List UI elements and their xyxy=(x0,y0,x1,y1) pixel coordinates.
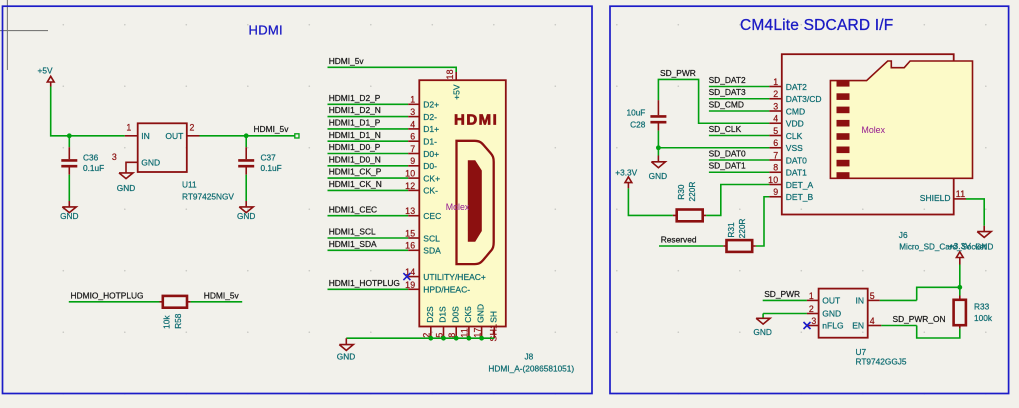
svg-text:2: 2 xyxy=(773,89,778,99)
svg-text:HDMI1_SCL: HDMI1_SCL xyxy=(329,227,376,237)
J8 pin 9 D0- / label HDMI1_D0_N xyxy=(328,154,438,171)
svg-text:R33: R33 xyxy=(974,301,990,311)
svg-text:HDMI1_D0_N: HDMI1_D0_N xyxy=(329,154,381,164)
J6 pin 6 VSS xyxy=(769,138,803,153)
svg-text:9: 9 xyxy=(410,156,415,166)
wire R58 to HDMI_5v xyxy=(191,301,243,303)
svg-text:220R: 220R xyxy=(687,182,697,202)
svg-text:Reserved: Reserved xyxy=(661,235,697,245)
J6 pin 10 DET_A xyxy=(768,175,813,190)
svg-text:SD_DAT0: SD_DAT0 xyxy=(709,148,746,158)
svg-text:GND: GND xyxy=(237,211,255,221)
svg-text:HDMI1_D2_N: HDMI1_D2_N xyxy=(329,105,381,115)
svg-text:+5V: +5V xyxy=(452,84,462,100)
J8 bottom pin 17 GND xyxy=(472,304,485,338)
svg-text:100k: 100k xyxy=(974,313,993,323)
connector plug graphic xyxy=(457,141,494,264)
svg-text:R31: R31 xyxy=(726,222,736,238)
svg-text:HDMI_5v: HDMI_5v xyxy=(329,56,365,66)
wire junction to C36 xyxy=(68,136,70,147)
svg-text:4: 4 xyxy=(773,114,778,124)
J8 pin 16 SDA / label HDMI1_SDA xyxy=(328,239,442,256)
svg-text:4: 4 xyxy=(410,119,415,129)
J6 card contact pads xyxy=(837,80,850,179)
U7 pin 1 OUT / label SD_PWR xyxy=(763,289,841,306)
svg-text:7: 7 xyxy=(410,144,415,154)
svg-text:D1S: D1S xyxy=(438,306,448,323)
svg-text:C28: C28 xyxy=(630,120,646,130)
svg-text:Molex: Molex xyxy=(862,125,886,135)
svg-text:10: 10 xyxy=(768,175,778,185)
connector J8 body xyxy=(419,80,506,326)
svg-text:+3.3V: +3.3V xyxy=(949,241,971,251)
svg-text:HDMI1_CK_N: HDMI1_CK_N xyxy=(329,179,382,189)
svg-text:nFLG: nFLG xyxy=(822,321,843,331)
J6 pin 2 DAT3/CD / label SD_DAT3 xyxy=(709,87,822,104)
svg-text:RT9742GGJ5: RT9742GGJ5 xyxy=(856,357,907,367)
op-amp U11 regulator box xyxy=(138,123,187,172)
svg-text:CK+: CK+ xyxy=(423,173,440,183)
sheet border left panel xyxy=(3,6,593,393)
ground C28 xyxy=(649,156,667,181)
J6 pin 11 SHIELD xyxy=(920,189,966,203)
svg-text:Molex: Molex xyxy=(446,202,470,212)
svg-text:D1-: D1- xyxy=(423,137,437,147)
junction node C36 xyxy=(67,133,72,138)
svg-text:GND: GND xyxy=(117,183,135,193)
J6 pin 1 DAT2 / label SD_DAT2 xyxy=(709,75,808,92)
svg-text:R30: R30 xyxy=(676,184,686,200)
svg-text:2: 2 xyxy=(190,122,195,132)
svg-text:7: 7 xyxy=(773,150,778,160)
svg-text:RT97425NGV: RT97425NGV xyxy=(182,192,234,202)
svg-text:10: 10 xyxy=(405,169,415,179)
svg-text:3: 3 xyxy=(410,107,415,117)
svg-text:GND: GND xyxy=(337,352,355,362)
wire HDMIO_HOTPLUG to R58 xyxy=(69,301,160,303)
svg-text:D1+: D1+ xyxy=(423,124,439,134)
wire SHIELD to ground xyxy=(966,199,984,226)
svg-text:J8: J8 xyxy=(525,352,534,362)
junction nodes bottom bus xyxy=(428,336,484,341)
svg-text:5: 5 xyxy=(870,291,875,301)
svg-text:D0-: D0- xyxy=(423,161,437,171)
crosshair marker top-left xyxy=(0,0,48,70)
svg-text:U7: U7 xyxy=(856,347,867,357)
svg-text:SD_PWR: SD_PWR xyxy=(660,68,696,78)
svg-text:DAT1: DAT1 xyxy=(786,168,807,178)
wire Reserved to R31 xyxy=(659,245,723,247)
svg-text:D2+: D2+ xyxy=(423,100,439,110)
svg-text:Micro_SD_Card_Socket: Micro_SD_Card_Socket xyxy=(899,241,987,251)
svg-text:HDMIO_HOTPLUG: HDMIO_HOTPLUG xyxy=(71,290,144,300)
svg-text:11: 11 xyxy=(956,189,966,199)
svg-text:+3.3V: +3.3V xyxy=(615,168,637,178)
wire R30 to DET_A pin 10 xyxy=(706,185,769,216)
label anchor square xyxy=(295,134,299,138)
transistor U7 power switch box xyxy=(819,289,868,338)
svg-text:10uF: 10uF xyxy=(626,107,645,117)
svg-text:D0S: D0S xyxy=(450,306,460,323)
svg-text:0.1uF: 0.1uF xyxy=(261,163,282,173)
U11 pin 3 GND xyxy=(112,152,160,173)
svg-text:SD_CMD: SD_CMD xyxy=(709,99,744,109)
svg-text:SCL: SCL xyxy=(423,233,440,243)
resistor R33 xyxy=(954,296,993,329)
resistor R30 xyxy=(673,182,706,222)
svg-text:GND: GND xyxy=(476,304,486,323)
wire C36 to ground xyxy=(68,175,70,201)
svg-text:9: 9 xyxy=(773,187,778,197)
svg-text:3: 3 xyxy=(811,316,816,326)
svg-text:EN: EN xyxy=(852,321,864,331)
J8 pin 19 HPD/HEAC- / label HDMI1_HOTPLUG xyxy=(328,278,471,295)
power +3.3V (R33 rail) xyxy=(949,241,971,264)
ground C36 xyxy=(60,201,78,221)
svg-text:12: 12 xyxy=(405,181,415,191)
svg-text:GND: GND xyxy=(753,327,771,337)
wire C28 to VSS bus xyxy=(657,131,659,156)
svg-text:HDMI1_D2_P: HDMI1_D2_P xyxy=(329,93,381,103)
svg-text:HDMI1_D1_N: HDMI1_D1_N xyxy=(329,130,381,140)
resistor R31 xyxy=(723,219,756,252)
junction node C37 xyxy=(244,133,249,138)
svg-text:SH: SH xyxy=(488,311,498,323)
svg-text:J6: J6 xyxy=(899,230,908,240)
U7 pin 5 IN xyxy=(856,291,880,306)
svg-text:CK5: CK5 xyxy=(463,306,473,323)
power +5V xyxy=(38,66,55,87)
J8 pin 3 D2- / label HDMI1_D2_N xyxy=(328,105,438,122)
svg-text:15: 15 xyxy=(405,228,415,238)
svg-text:IN: IN xyxy=(141,131,150,141)
svg-text:8: 8 xyxy=(773,163,778,173)
svg-text:DAT2: DAT2 xyxy=(786,82,807,92)
svg-text:SD_PWR_ON: SD_PWR_ON xyxy=(893,314,946,324)
svg-text:U11: U11 xyxy=(182,179,197,189)
svg-text:HDMI1_HOTPLUG: HDMI1_HOTPLUG xyxy=(329,278,400,288)
svg-text:3: 3 xyxy=(112,152,117,162)
J6 pin 8 DAT1 / label SD_DAT1 xyxy=(709,161,808,178)
svg-text:HDMI: HDMI xyxy=(454,112,497,129)
J8 pin 18 stub xyxy=(445,69,456,80)
J8 pin 4 D1+ / label HDMI1_D1_P xyxy=(328,118,440,135)
svg-text:CM4Lite SDCARD I/F: CM4Lite SDCARD I/F xyxy=(740,17,893,34)
svg-text:1: 1 xyxy=(809,291,814,301)
wire +3.3V rail to R33 and IN xyxy=(880,265,960,301)
capacitor C37 xyxy=(238,147,282,175)
svg-text:HDMI1_CK_P: HDMI1_CK_P xyxy=(329,167,382,177)
svg-text:19: 19 xyxy=(405,280,415,290)
svg-text:SD_DAT3: SD_DAT3 xyxy=(709,87,746,97)
svg-text:2: 2 xyxy=(809,304,814,314)
ground J8 xyxy=(337,338,355,361)
svg-text:HDMI: HDMI xyxy=(249,23,283,38)
svg-text:D2-: D2- xyxy=(423,112,437,122)
wire R31 to DET_B pin 9 xyxy=(756,197,770,246)
J8 bottom pin SH xyxy=(488,311,498,342)
svg-text:10k: 10k xyxy=(162,315,172,329)
svg-text:CEC: CEC xyxy=(423,211,441,221)
J6 SD card graphic xyxy=(830,61,972,178)
svg-text:SDA: SDA xyxy=(423,246,441,256)
connector plug inner blade xyxy=(468,160,482,242)
svg-text:HDMI_A-(2086581051): HDMI_A-(2086581051) xyxy=(488,364,574,374)
svg-text:DET_B: DET_B xyxy=(786,192,814,202)
J8 pin 1 D2+ / label HDMI1_D2_P xyxy=(328,93,440,110)
svg-text:HDMI1_CEC: HDMI1_CEC xyxy=(329,204,377,214)
svg-text:HDMI_5v: HDMI_5v xyxy=(254,124,290,134)
svg-text:SD_DAT1: SD_DAT1 xyxy=(709,161,746,171)
J8 bottom pin 11 CK5 xyxy=(460,306,473,338)
U7 pin 4 EN xyxy=(852,316,881,331)
svg-text:OUT: OUT xyxy=(822,296,840,306)
svg-text:DAT3/CD: DAT3/CD xyxy=(786,94,822,104)
resistor R58 xyxy=(160,296,191,329)
svg-text:SD_CLK: SD_CLK xyxy=(709,124,742,134)
wire R33 bottom to EN xyxy=(881,326,960,339)
svg-text:C36: C36 xyxy=(83,153,99,163)
svg-text:D0+: D0+ xyxy=(423,149,439,159)
ground SHIELD xyxy=(975,226,993,252)
svg-text:1: 1 xyxy=(410,95,415,105)
J8 bottom pin 2 D2S xyxy=(422,306,435,338)
U11 pin 2 OUT xyxy=(165,122,199,141)
J6 pin 3 CMD / label SD_CMD xyxy=(709,99,806,116)
svg-text:4: 4 xyxy=(870,316,875,326)
svg-text:16: 16 xyxy=(405,241,415,251)
J6 pin 4 VDD xyxy=(769,114,803,129)
capacitor C36 xyxy=(61,147,104,175)
svg-text:HDMI1_D0_P: HDMI1_D0_P xyxy=(329,142,381,152)
wire junction to C37 xyxy=(245,136,247,147)
svg-text:SHIELD: SHIELD xyxy=(920,193,951,203)
svg-text:DAT0: DAT0 xyxy=(786,155,807,165)
ground U11 pin3 xyxy=(117,173,135,193)
J8 pin 12 CK- / label HDMI1_CK_N xyxy=(328,179,439,196)
J6 pin 5 CLK / label SD_CLK xyxy=(709,124,803,141)
svg-text:HPD/HEAC-: HPD/HEAC- xyxy=(423,285,470,295)
U7 pin 2 GND xyxy=(763,304,841,319)
svg-text:GND: GND xyxy=(60,211,78,221)
junction node C28/VSS xyxy=(656,145,661,150)
wire HDMI_5v to J8 pin 18 xyxy=(328,67,457,72)
svg-text:D2S: D2S xyxy=(425,306,435,323)
J8 pin 10 CK+ / label HDMI1_CK_P xyxy=(328,167,441,184)
sheet border right panel xyxy=(610,6,1009,393)
J8 pin 13 CEC / label HDMI1_CEC xyxy=(328,204,442,221)
svg-text:0.1uF: 0.1uF xyxy=(83,163,104,173)
svg-text:SD_DAT2: SD_DAT2 xyxy=(709,75,746,85)
svg-text:HDMI1_SDA: HDMI1_SDA xyxy=(329,239,377,249)
svg-text:CLK: CLK xyxy=(786,131,803,141)
J6 pin 9 DET_B xyxy=(769,187,813,202)
J8 ref/value xyxy=(488,352,574,374)
svg-text:1: 1 xyxy=(126,122,131,132)
svg-text:6: 6 xyxy=(773,138,778,148)
J8 pin 6 D1- / label HDMI1_D1_N xyxy=(328,130,438,147)
J8 pin 15 SCL / label HDMI1_SCL xyxy=(328,227,441,244)
svg-text:1: 1 xyxy=(773,77,778,87)
U11 pin 1 IN xyxy=(125,122,150,141)
wire +3.3V to R30 xyxy=(628,188,673,215)
U11 ref/value xyxy=(182,179,234,201)
svg-text:HDMI1_D1_P: HDMI1_D1_P xyxy=(329,118,381,128)
svg-text:18: 18 xyxy=(445,69,455,79)
wire J8 bottom ground bus xyxy=(346,337,494,339)
J8 pin 7 D0+ / label HDMI1_D0_P xyxy=(328,142,440,159)
svg-text:IN: IN xyxy=(856,296,865,306)
svg-text:SD_PWR: SD_PWR xyxy=(764,289,800,299)
svg-text:5: 5 xyxy=(773,126,778,136)
svg-text:+5V: +5V xyxy=(38,66,53,76)
J8 pin 14 UTILITY/HEAC+ (no connect) xyxy=(403,267,486,282)
J8 bottom pin 5 D1S xyxy=(434,306,447,338)
svg-text:3: 3 xyxy=(773,101,778,111)
svg-text:OUT: OUT xyxy=(165,131,183,141)
connector J6 body xyxy=(782,54,954,214)
svg-text:GND: GND xyxy=(649,171,667,181)
wire U11 OUT to HDMI_5v label xyxy=(200,135,296,137)
svg-text:GND: GND xyxy=(141,158,160,168)
svg-text:HDMI_5v: HDMI_5v xyxy=(204,290,240,300)
svg-text:6: 6 xyxy=(410,132,415,142)
capacitor C28 xyxy=(626,100,666,130)
J8 bottom pin 8 D0S xyxy=(447,306,460,338)
svg-text:CMD: CMD xyxy=(786,106,805,116)
junction node R33 rail xyxy=(957,285,962,290)
wire +5V down and to U11 pin1 xyxy=(51,87,125,136)
svg-text:R58: R58 xyxy=(173,313,183,329)
svg-text:VDD: VDD xyxy=(786,119,804,129)
power +3.3V xyxy=(615,168,637,189)
J6 pin 7 DAT0 / label SD_DAT0 xyxy=(709,148,808,165)
J6 ref/value xyxy=(899,230,987,252)
wire C37 to ground xyxy=(245,175,247,201)
U7 pin 3 nFLG (no connect) xyxy=(804,316,844,331)
svg-text:220R: 220R xyxy=(737,219,747,239)
wire VSS pin 6 xyxy=(658,147,769,149)
svg-text:UTILITY/HEAC+: UTILITY/HEAC+ xyxy=(423,272,486,282)
svg-text:13: 13 xyxy=(405,206,415,216)
U7 ref/value xyxy=(856,347,907,367)
svg-text:CK-: CK- xyxy=(423,186,438,196)
svg-text:C37: C37 xyxy=(261,153,277,163)
svg-text:VSS: VSS xyxy=(786,143,803,153)
ground C37 xyxy=(237,201,255,221)
wire SD_PWR to C28 and VDD xyxy=(658,79,769,123)
ground U7 pin2 xyxy=(753,314,771,337)
svg-text:DET_A: DET_A xyxy=(786,180,814,190)
svg-text:GND: GND xyxy=(822,309,841,319)
